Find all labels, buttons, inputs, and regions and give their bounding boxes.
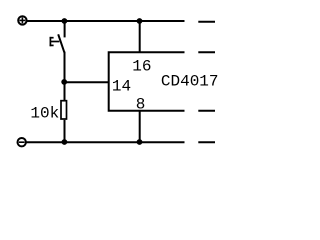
wire resistor to negative rail bbox=[64, 120, 66, 142]
pushbutton switch S1 actuator bbox=[50, 37, 60, 46]
pin 16 wire bbox=[139, 21, 141, 52]
svg-text:16: 16 bbox=[132, 57, 151, 75]
junction dot positive rail / switch bbox=[62, 18, 68, 24]
battery positive terminal bbox=[18, 16, 26, 24]
wire switch to resistor bbox=[64, 52, 66, 100]
positive rail wire bbox=[27, 20, 185, 22]
IC box top edge continuation dash bbox=[198, 51, 215, 53]
pushbutton switch S1 upper contact stub bbox=[64, 21, 66, 37]
svg-text:8: 8 bbox=[136, 95, 146, 113]
IC box bottom edge continuation dash bbox=[198, 110, 215, 112]
battery negative terminal bbox=[18, 138, 26, 146]
negative rail wire bbox=[26, 141, 185, 143]
resistor 10k body bbox=[61, 101, 67, 119]
negative rail continuation dash bbox=[198, 141, 215, 143]
junction dot switch-resistor node / pin 14 bbox=[61, 79, 67, 85]
junction dot negative rail / resistor bbox=[62, 139, 68, 145]
svg-text:CD4017: CD4017 bbox=[161, 72, 219, 90]
IC U1 CD4017 box (left, top, bottom edges; right side cut off) bbox=[109, 52, 185, 111]
pin 14 wire bbox=[65, 81, 109, 83]
svg-text:14: 14 bbox=[112, 77, 131, 95]
positive rail continuation dash bbox=[198, 21, 215, 23]
junction dot positive rail / pin 16 bbox=[137, 18, 143, 24]
svg-text:10k: 10k bbox=[30, 104, 59, 122]
pin 8 wire bbox=[139, 111, 141, 142]
pushbutton switch S1 lever bbox=[58, 34, 64, 52]
junction dot negative rail / pin 8 bbox=[137, 139, 143, 145]
